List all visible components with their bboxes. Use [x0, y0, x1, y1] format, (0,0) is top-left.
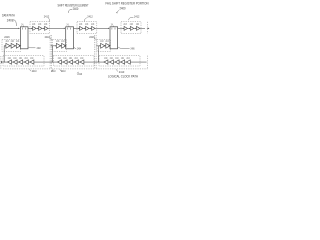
- label 2410 stage3: [116, 69, 118, 71]
- wire clock riser stage 2: [52, 46, 54, 62]
- svg-text:2410: 2410: [63, 58, 67, 60]
- svg-text:2410: 2410: [8, 58, 12, 60]
- wire latch2 to buffers: [74, 27, 80, 29]
- label 2404: [74, 47, 77, 49]
- label 2410 stage2a: [52, 69, 54, 71]
- svg-text:2410: 2410: [104, 58, 108, 60]
- clock path dashed box: [99, 56, 140, 66]
- label 2406: [118, 47, 130, 49]
- svg-text:2410: 2410: [75, 58, 79, 60]
- latch 2402: [20, 27, 28, 49]
- svg-text:2410: 2410: [119, 70, 125, 74]
- svg-text:2416: 2416: [16, 41, 20, 43]
- latch 2404: [66, 27, 74, 49]
- svg-text:2416: 2416: [11, 41, 15, 43]
- svg-text:2416: 2416: [4, 35, 10, 39]
- wire buffers to latch3: [97, 27, 109, 29]
- svg-text:2410: 2410: [58, 58, 62, 60]
- svg-text:2400: 2400: [120, 7, 126, 11]
- svg-text:2418: 2418: [124, 24, 128, 26]
- data buffer chain dashed box: [77, 22, 97, 34]
- svg-text:2406: 2406: [131, 46, 135, 50]
- svg-text:2408: 2408: [7, 18, 14, 22]
- svg-text:2418: 2418: [85, 24, 89, 26]
- latch 2406: [110, 27, 118, 49]
- svg-text:FAIL SHIFT REGISTER PORTION: FAIL SHIFT REGISTER PORTION: [106, 1, 149, 5]
- svg-text:2410: 2410: [110, 58, 114, 60]
- wire data output: [141, 27, 145, 29]
- svg-text:DATA PATH: DATA PATH: [2, 14, 15, 18]
- svg-text:2410: 2410: [61, 69, 66, 73]
- wire clock riser stage 3: [97, 46, 99, 62]
- wire latch3 to buffers: [118, 27, 125, 29]
- clock path dashed box: [53, 56, 94, 66]
- svg-text:2410: 2410: [115, 58, 119, 60]
- svg-text:2410: 2410: [51, 69, 56, 73]
- svg-text:2410: 2410: [77, 72, 82, 76]
- svg-text:2410: 2410: [127, 58, 131, 60]
- svg-text:2402: 2402: [37, 46, 41, 50]
- svg-text:2418: 2418: [79, 24, 83, 26]
- label 2410 stage1: [30, 69, 32, 71]
- stage boundary dashed lines: [49, 35, 51, 69]
- svg-text:LOGICAL CLOCK PATH: LOGICAL CLOCK PATH: [108, 75, 139, 79]
- label 2414 stage2: [77, 72, 79, 73]
- svg-text:2410: 2410: [13, 58, 17, 60]
- svg-text:2416: 2416: [100, 41, 104, 43]
- svg-text:2416: 2416: [56, 41, 60, 43]
- svg-text:2410: 2410: [80, 58, 84, 60]
- svg-text:2410: 2410: [121, 58, 125, 60]
- svg-text:2416: 2416: [106, 41, 110, 43]
- svg-text:2418: 2418: [32, 24, 36, 26]
- svg-text:2410: 2410: [69, 58, 73, 60]
- svg-text:2400: 2400: [73, 7, 79, 11]
- data buffer chain dashed box: [30, 22, 50, 34]
- svg-text:2418: 2418: [44, 24, 48, 26]
- svg-text:2416: 2416: [61, 41, 65, 43]
- clock buffer chain dashed box: [97, 40, 111, 52]
- svg-text:2404: 2404: [77, 47, 81, 51]
- wire logical clock line: [2, 61, 147, 63]
- wire buffers to latch2: [50, 27, 65, 29]
- svg-text:2418: 2418: [91, 24, 95, 26]
- clock buffer chain dashed box: [53, 40, 67, 52]
- wire latch1 to buffers: [28, 27, 33, 29]
- svg-text:2418: 2418: [130, 24, 134, 26]
- svg-text:2410: 2410: [19, 58, 23, 60]
- wire data input: [0, 27, 19, 29]
- svg-text:2412: 2412: [87, 15, 93, 19]
- clock path dashed box: [3, 56, 44, 66]
- outer bottom dashed edges: [3, 68, 50, 70]
- data buffer chain dashed box: [121, 22, 141, 34]
- wire clock riser stage 1: [3, 46, 5, 62]
- svg-text:2410: 2410: [25, 58, 29, 60]
- svg-text:2416: 2416: [6, 41, 10, 43]
- svg-text:2418: 2418: [38, 24, 42, 26]
- clock buffer chain dashed box: [2, 40, 21, 52]
- svg-text:2410: 2410: [30, 58, 34, 60]
- svg-text:2410: 2410: [32, 69, 37, 73]
- svg-text:2418: 2418: [136, 24, 140, 26]
- svg-text:2412: 2412: [134, 14, 140, 18]
- label 2410 stage2b: [60, 69, 62, 71]
- label 2402: [28, 47, 35, 48]
